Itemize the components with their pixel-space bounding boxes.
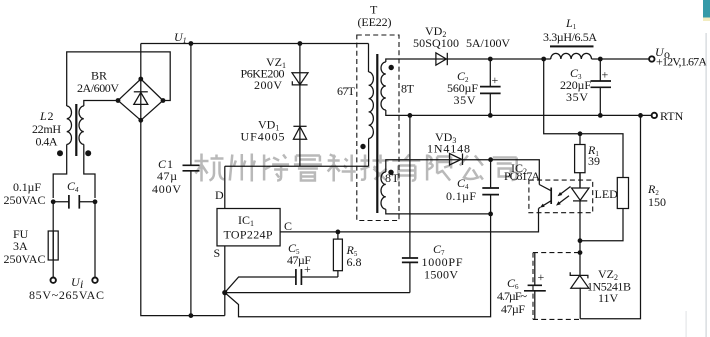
svg-text:1500V: 1500V xyxy=(424,268,458,282)
svg-text:47µF: 47µF xyxy=(501,302,525,316)
junction R1 top xyxy=(578,131,583,136)
junction C7 top on RTN xyxy=(408,113,413,118)
junction R2 bottom on LED line xyxy=(578,238,583,243)
svg-text:11V: 11V xyxy=(598,291,619,305)
junction C3 top xyxy=(598,57,603,62)
svg-text:S: S xyxy=(214,246,221,260)
svg-text:UF4005: UF4005 xyxy=(241,130,285,144)
terminal Uo xyxy=(649,56,654,61)
wire S pin to ground node xyxy=(224,246,226,316)
svg-text:85V~265VAC: 85V~265VAC xyxy=(29,288,104,302)
wire top DC bus rail U1 xyxy=(141,43,369,45)
junction C1 bottom xyxy=(189,313,194,318)
inductor L1 3.3uH/6.5A xyxy=(550,45,594,59)
junction C4 top xyxy=(488,157,493,162)
wire bridge bottom to primary ground rail xyxy=(141,120,225,315)
svg-text:67T: 67T xyxy=(337,84,356,98)
inductor L2 common-mode choke xyxy=(57,104,91,156)
wire choke right winding down to X-cap node xyxy=(84,144,95,198)
svg-text:6.8: 6.8 xyxy=(347,255,362,269)
wire L1 to output terminal xyxy=(592,58,650,60)
capacitor C6 dashed box xyxy=(533,253,580,320)
svg-text:250VAC: 250VAC xyxy=(4,193,46,207)
wire rail to primary top xyxy=(368,44,370,73)
wire bias top to VD3 line xyxy=(386,160,540,185)
terminal input left xyxy=(51,278,56,283)
capacitor C1 47u 400V xyxy=(183,44,200,316)
svg-text:+: + xyxy=(538,270,545,284)
svg-text:0.1µF: 0.1µF xyxy=(446,189,476,203)
svg-text:400V: 400V xyxy=(152,182,181,196)
svg-text:8T: 8T xyxy=(385,171,400,185)
capacitor C6 4.7uF~47uF xyxy=(524,253,546,320)
wire feedback riser Uo to R1 R2 line xyxy=(544,59,623,178)
capacitor C3 220uF 35V xyxy=(591,59,612,115)
terminal input right xyxy=(92,278,97,283)
svg-text:3.3µH/6.5A: 3.3µH/6.5A xyxy=(543,30,597,44)
junction C3 bottom on RTN xyxy=(598,113,603,118)
svg-text:200V: 200V xyxy=(254,78,282,92)
junction RTN riser xyxy=(638,113,643,118)
svg-text:0.1µF: 0.1µF xyxy=(13,180,41,194)
wire secondary top to output rectifier xyxy=(386,59,436,62)
svg-text:LED: LED xyxy=(595,187,619,201)
junction bias return C4 bottom xyxy=(488,212,493,217)
resistor R2 150 xyxy=(580,178,629,241)
svg-text:8T: 8T xyxy=(401,82,415,96)
diode VD3 1N4148 xyxy=(450,154,463,166)
junction S ground node xyxy=(222,290,227,295)
junction U1 xyxy=(189,41,194,46)
wire secondary bottom to RTN rail xyxy=(386,110,655,115)
svg-text:D: D xyxy=(215,188,224,202)
svg-text:TOP224P: TOP224P xyxy=(224,228,273,242)
wire bridge right vertex loop to choke left winding xyxy=(67,52,171,106)
wire D pin drop xyxy=(224,166,226,208)
capacitor C2 560uF 35V xyxy=(480,59,501,115)
svg-text:39: 39 xyxy=(588,154,600,168)
svg-text:50SQ100: 50SQ100 xyxy=(413,36,459,50)
transistor opto phototransistor xyxy=(539,185,552,209)
svg-text:L: L xyxy=(39,109,47,123)
optocoupler IC2 PC817A dashed box xyxy=(529,180,593,213)
resistor R1 39 xyxy=(575,134,585,188)
zener VZ2 1N5241B xyxy=(570,272,589,319)
svg-text:PC817A: PC817A xyxy=(504,169,540,183)
svg-text:(EE22): (EE22) xyxy=(358,15,392,29)
transformer T EE22 dashed box xyxy=(357,35,399,221)
wire clamp branch vertical xyxy=(299,44,301,167)
wire S node to C7 bottom xyxy=(225,292,410,294)
capacitor C7 1000PF 1500V xyxy=(402,115,418,292)
LED of optocoupler xyxy=(572,173,590,241)
svg-text:150: 150 xyxy=(648,195,666,209)
junction C6 branch xyxy=(578,250,583,255)
svg-text:RTN: RTN xyxy=(660,109,684,123)
diode VD1 UF4005 xyxy=(293,126,306,139)
svg-text:47µF: 47µF xyxy=(287,253,311,267)
svg-text:35V: 35V xyxy=(566,90,588,104)
transformer primary winding 67T xyxy=(360,72,373,149)
diode VD2 50SQ100 xyxy=(436,53,490,65)
wire LED line to VZ2 xyxy=(579,241,581,275)
transformer bias winding 8T xyxy=(381,170,394,210)
svg-text:35V: 35V xyxy=(454,93,476,107)
resistor R5 6.8 xyxy=(333,232,342,277)
wire bridge top to rail xyxy=(140,44,142,80)
wire bias bottom return xyxy=(386,209,491,214)
op-amp U1 IC1 TOP224P box xyxy=(217,209,280,246)
junction C2 bottom on RTN xyxy=(488,113,493,118)
svg-text:47µ: 47µ xyxy=(157,169,177,183)
terminal RTN xyxy=(652,113,657,118)
svg-text:C: C xyxy=(284,219,292,233)
svg-text:+: + xyxy=(492,73,499,87)
wire right input line down xyxy=(94,202,96,278)
svg-text:0.4A: 0.4A xyxy=(36,135,58,149)
wire choke left winding down to X-cap node xyxy=(53,144,66,198)
zener VZ1 P6KE200 xyxy=(292,73,308,85)
wire bridge left vertex to choke right winding xyxy=(84,101,118,107)
wire drain line xyxy=(225,165,369,167)
wire VZ2 bottom to RTN riser xyxy=(580,115,640,318)
svg-text:250VAC: 250VAC xyxy=(4,252,46,266)
wire C pin line to optocoupler emitter xyxy=(280,209,538,232)
svg-text:+12V,1.67A: +12V,1.67A xyxy=(656,55,707,69)
svg-text:+: + xyxy=(602,68,609,82)
bridge rectifier BR xyxy=(116,77,166,123)
capacitor C5 47uF xyxy=(225,262,338,293)
junction feedback riser top xyxy=(541,57,546,62)
opto light arrows xyxy=(556,187,571,206)
svg-text:3A: 3A xyxy=(13,239,28,253)
svg-text:2: 2 xyxy=(48,109,54,123)
junction clamp branch on rail xyxy=(298,41,303,46)
junction R5 top xyxy=(336,230,341,235)
wire output rail C2 to L1 xyxy=(490,58,550,60)
transformer secondary winding 8T xyxy=(381,62,394,110)
svg-text:2A/600V: 2A/600V xyxy=(77,81,119,95)
wire primary bottom to drain line xyxy=(368,139,370,167)
capacitor C4 X-cap 0.1uF xyxy=(51,195,98,209)
svg-text:5A/100V: 5A/100V xyxy=(466,36,510,50)
wire S node to bias return line xyxy=(225,214,491,317)
transformer core bar xyxy=(376,54,378,213)
fuse FU 3A xyxy=(48,202,58,278)
junction C2 top xyxy=(488,57,493,62)
capacitor C4 0.1uF xyxy=(482,160,499,214)
svg-text:1N4148: 1N4148 xyxy=(427,142,470,156)
svg-text:4.7µF~: 4.7µF~ xyxy=(497,289,528,303)
